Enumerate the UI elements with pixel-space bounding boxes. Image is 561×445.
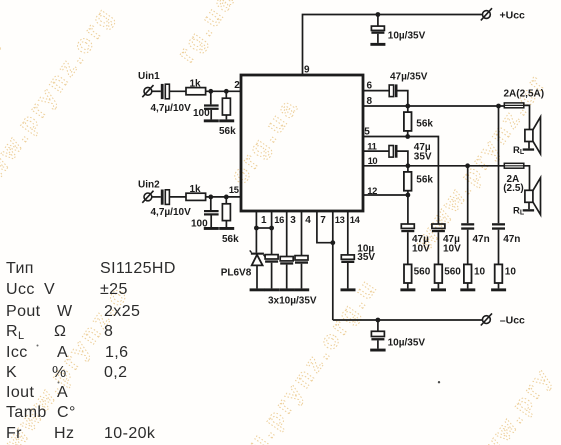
ground (input2 56k) <box>219 227 234 230</box>
fuse F1 2A(2,5A) <box>504 89 545 108</box>
wire pin 13 to -Ucc rail <box>332 212 334 320</box>
capacitor 10u/35V top (at +Ucc) <box>371 15 384 43</box>
svg-text:11: 11 <box>367 141 376 152</box>
svg-text:56k: 56k <box>416 119 433 130</box>
wire zobel ch1 drop <box>498 106 500 223</box>
svg-text:560: 560 <box>444 267 461 278</box>
ground zener <box>250 288 265 291</box>
wire to pin 15 <box>206 196 241 198</box>
wire fuse2 to speaker2 <box>524 166 530 191</box>
node junction input1 a <box>208 89 213 94</box>
resistor 560 branch1 <box>404 264 431 288</box>
capacitor 47n branch3 <box>461 223 490 264</box>
svg-text:3x10µ/35V: 3x10µ/35V <box>268 296 317 307</box>
node pin1 bus <box>254 226 259 231</box>
capacitor 10u/35V pin16 <box>265 212 278 288</box>
svg-text:1: 1 <box>261 215 267 226</box>
zener diode PL6V8 <box>221 250 266 288</box>
resistor 56k feedback ch1 <box>404 106 434 137</box>
noise dot table a <box>37 345 39 347</box>
svg-text:1k: 1k <box>190 78 202 89</box>
svg-text:13: 13 <box>335 214 345 225</box>
ground pin3 cap <box>279 288 294 291</box>
wire -Ucc rail <box>333 319 483 321</box>
svg-text:56k: 56k <box>219 126 236 137</box>
node junction input1 b <box>224 89 229 94</box>
speaker RL channel 2 <box>513 178 541 217</box>
wire fuse1 to speaker1 <box>524 105 530 129</box>
resistor 560 branch2 <box>435 264 462 288</box>
ground bottom cap <box>370 349 385 352</box>
capacitor 47u/10V branch2 <box>432 224 461 264</box>
node pin5/56k <box>405 134 410 139</box>
resistor 10 branch3 <box>464 264 486 288</box>
wire <box>169 90 186 92</box>
capacitor 10u/35V pin14 <box>341 212 375 288</box>
svg-text:10: 10 <box>474 267 486 278</box>
svg-text:9: 9 <box>304 64 310 75</box>
svg-text:4,7µ/10V: 4,7µ/10V <box>151 207 192 218</box>
speaker RL channel 1 <box>513 117 541 156</box>
svg-text:(2.5): (2.5) <box>503 183 524 194</box>
svg-text:10µ/35V: 10µ/35V <box>388 31 426 42</box>
svg-text:Uin2: Uin2 <box>138 179 160 190</box>
capacitor 4,7u/10V input2 <box>151 190 192 218</box>
svg-text:16: 16 <box>274 214 284 225</box>
resistor 1k input1 <box>186 78 206 94</box>
svg-text:47n: 47n <box>473 234 490 245</box>
svg-text:35V: 35V <box>357 252 375 263</box>
svg-text:10: 10 <box>368 155 378 166</box>
ground (input1 56k) <box>219 119 234 122</box>
wire pin 10 output line <box>363 165 504 167</box>
svg-text:7: 7 <box>320 215 326 226</box>
svg-text:3: 3 <box>290 215 296 226</box>
svg-text:www.prynz.or: www.prynz.or <box>409 69 552 256</box>
capacitor 100 input1 <box>193 91 219 119</box>
svg-text:10V: 10V <box>443 244 461 255</box>
svg-text:–Ucc: –Ucc <box>500 314 525 326</box>
fuse F2 2A(2.5) <box>503 163 524 194</box>
capacitor 47u/35V pin6 bootstrap <box>363 71 428 106</box>
wire bus pin1-pin16 <box>256 227 271 229</box>
parameter table <box>0 259 1 261</box>
svg-text:2: 2 <box>234 80 240 91</box>
svg-text:Uin1: Uin1 <box>138 71 160 82</box>
ground branch4 <box>491 288 506 291</box>
noise dot table b <box>58 382 60 384</box>
wire <box>169 196 186 198</box>
svg-text:1k: 1k <box>190 184 202 195</box>
node pin8/cap6 <box>405 104 410 109</box>
ground pin4 cap <box>294 288 309 291</box>
svg-text:RL: RL <box>513 145 525 156</box>
node pin16 bus <box>269 226 274 231</box>
wire pin 5 line down to RC <box>363 137 438 225</box>
svg-text:35V: 35V <box>414 152 432 163</box>
capacitor 47u/35V pin11 <box>363 142 432 166</box>
capacitor 4,7u/10V input1 <box>151 84 192 114</box>
node pin10/zobel <box>465 163 470 168</box>
wire input1 <box>152 90 161 92</box>
wire pin 8 output line <box>363 105 504 107</box>
svg-text:14: 14 <box>350 214 361 225</box>
wire to pin 2 <box>206 90 241 92</box>
svg-text:ww.pry: ww.pry <box>474 362 559 445</box>
svg-text:www.prynz.org: www.prynz.org <box>0 1 120 204</box>
node on -Ucc rail <box>376 318 381 323</box>
ground branch3 <box>460 288 475 291</box>
wire +Ucc rail from pin 9 <box>303 15 483 76</box>
svg-text:100: 100 <box>193 108 210 119</box>
node pin10/cap11 <box>406 163 411 168</box>
svg-text:56k: 56k <box>222 234 239 245</box>
node junction input2 a <box>208 195 213 200</box>
wire pin 7 <box>317 212 333 243</box>
capacitor 47u/10V branch1 <box>401 224 430 264</box>
svg-text:47n: 47n <box>503 234 520 245</box>
node Uin1 input terminal <box>138 71 160 97</box>
resistor 56k input2 <box>222 197 239 245</box>
svg-text:10µ/35V: 10µ/35V <box>388 338 426 349</box>
resistor 1k input2 <box>186 184 206 200</box>
wire pin 12 line <box>363 195 408 224</box>
node pin8/zobel <box>496 104 501 109</box>
svg-text:+Ucc: +Ucc <box>500 9 526 21</box>
ground branch1 <box>400 288 415 291</box>
capacitor 10u/35V bottom (at -Ucc) <box>371 320 425 349</box>
node Uin2 input terminal <box>138 179 160 202</box>
svg-text:47µ/35V: 47µ/35V <box>390 71 428 82</box>
ground (top cap) <box>370 43 385 46</box>
node pin7/pin13 <box>330 240 335 245</box>
wire zobel ch2 drop <box>467 166 469 223</box>
terminal +Ucc <box>481 8 525 21</box>
capacitor 10u/35V pin4 <box>295 212 308 288</box>
node on +Ucc rail <box>376 12 381 17</box>
svg-text:PL6V8: PL6V8 <box>221 268 252 279</box>
ground (input1 cap) <box>204 119 219 122</box>
ground branch2 <box>431 288 446 291</box>
node pin12 <box>406 193 411 198</box>
wire pin 1 <box>255 212 257 253</box>
svg-text:rg.ua: rg.ua <box>172 0 241 67</box>
ground pin14 cap <box>341 288 356 291</box>
terminal -Ucc <box>481 313 525 326</box>
capacitor 100 input2 <box>191 197 219 230</box>
node junction input2 b <box>224 195 229 200</box>
ground (input2 cap) <box>204 227 219 230</box>
wire input2 <box>152 196 161 198</box>
svg-text:4: 4 <box>305 215 311 226</box>
svg-text:RL: RL <box>513 206 525 217</box>
capacitor 10u/35V pin3 <box>280 212 293 288</box>
resistor 56k input1 <box>219 91 236 137</box>
ground pin16 cap <box>264 288 279 291</box>
svg-text:56k: 56k <box>416 174 433 185</box>
svg-text:a.w: a.w <box>0 30 10 88</box>
svg-text:560: 560 <box>414 267 431 278</box>
stray ink dot <box>438 381 440 383</box>
capacitor 47n branch4 <box>492 223 520 264</box>
resistor 10 branch4 <box>495 264 517 288</box>
svg-text:10: 10 <box>505 267 517 278</box>
svg-text:4,7µ/10V: 4,7µ/10V <box>151 103 192 114</box>
resistor 56k feedback ch2 <box>404 166 434 195</box>
svg-text:15: 15 <box>229 184 239 195</box>
op-amp IC U1 SI1125HD body <box>241 75 363 211</box>
